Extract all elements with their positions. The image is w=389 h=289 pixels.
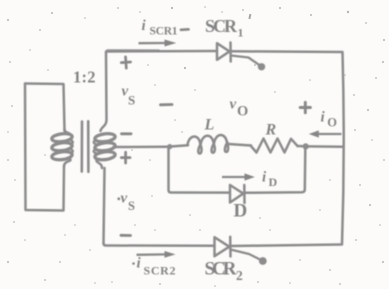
wire: bottom rail left segment	[104, 243, 214, 246]
wire: node A to inductor	[169, 145, 188, 146]
wire: secondary top lead	[101, 52, 107, 131]
label: v_S lower with leading dot	[117, 191, 135, 214]
svg-text:S: S	[128, 93, 135, 108]
transformer T1 secondary winding	[94, 133, 116, 168]
wire: top rail left segment (anode of SCR1)	[106, 50, 217, 53]
SCR1	[217, 43, 265, 71]
arrow: i_D current arrow	[222, 173, 255, 180]
wire: primary left and bottom lead	[25, 84, 64, 211]
label: i_O	[321, 110, 338, 130]
label: SCR1	[205, 16, 244, 40]
svg-text:SCR: SCR	[205, 259, 237, 280]
inductor L	[188, 135, 229, 154]
svg-text:i: i	[142, 18, 147, 34]
SCR2	[215, 237, 267, 265]
plus sign: upper secondary +	[121, 56, 131, 68]
svg-text:v: v	[121, 191, 128, 207]
svg-text:O: O	[327, 116, 337, 130]
diode D	[230, 185, 245, 203]
svg-text:2: 2	[236, 268, 243, 283]
svg-text:D: D	[234, 201, 248, 222]
svg-text:S: S	[128, 199, 135, 213]
arrow: i_SCR2 current arrow	[137, 251, 176, 258]
resistor R	[251, 139, 298, 153]
wire: secondary bottom lead	[104, 168, 105, 243]
plus sign: lower secondary + (below center tap)	[121, 152, 130, 163]
wire: center tap to node A	[114, 146, 168, 149]
node A (center-tap / freewheel junction)	[167, 144, 172, 149]
arrow: i_SCR1 current arrow	[139, 40, 177, 47]
label: i_D	[262, 170, 278, 190]
arrow: i_O current arrow (pointing left)	[309, 130, 342, 137]
wire: top rail right segment and right vertical	[232, 51, 344, 244]
svg-text:1:2: 1:2	[73, 68, 96, 87]
svg-text:R: R	[265, 122, 277, 139]
svg-text:v: v	[230, 97, 237, 113]
wire: freewheel loop left vertical	[169, 148, 230, 193]
node B (load output junction)	[303, 143, 309, 149]
transformer T1 core	[81, 122, 84, 172]
label: v_S upper	[122, 84, 136, 108]
minus sign: lower secondary -	[121, 234, 131, 237]
svg-text:i: i	[262, 170, 267, 186]
svg-text:O: O	[237, 104, 248, 120]
wire: primary top lead	[25, 84, 65, 132]
svg-text:i: i	[321, 110, 326, 126]
label: v_O	[230, 97, 249, 120]
label: SCR2	[205, 259, 244, 284]
wire: node B to right rail	[308, 145, 343, 148]
svg-text:L: L	[204, 117, 215, 134]
minus sign: upper secondary - (above center tap)	[122, 132, 132, 135]
svg-text:SCR1: SCR1	[150, 26, 178, 38]
svg-text:i: i	[137, 256, 142, 272]
plus sign: v_O right +	[300, 102, 310, 112]
transformer T1 primary winding	[51, 129, 72, 166]
wire: L to R	[229, 144, 252, 146]
wire: bottom rail right segment	[231, 245, 341, 247]
label: i_SCR1	[142, 18, 178, 38]
svg-text:D: D	[269, 175, 278, 189]
minus sign: between i_SCR1 and SCR1	[181, 28, 189, 31]
svg-text:1: 1	[238, 26, 244, 40]
svg-text:SCR2: SCR2	[144, 264, 176, 278]
minus sign: v_O left -	[161, 103, 173, 106]
wire: R to node B	[298, 145, 305, 148]
wire: freewheel loop bottom right and right vertical	[245, 149, 305, 193]
label: i_SCR2 with leading dot	[132, 256, 175, 278]
svg-text:SCR: SCR	[205, 16, 238, 36]
